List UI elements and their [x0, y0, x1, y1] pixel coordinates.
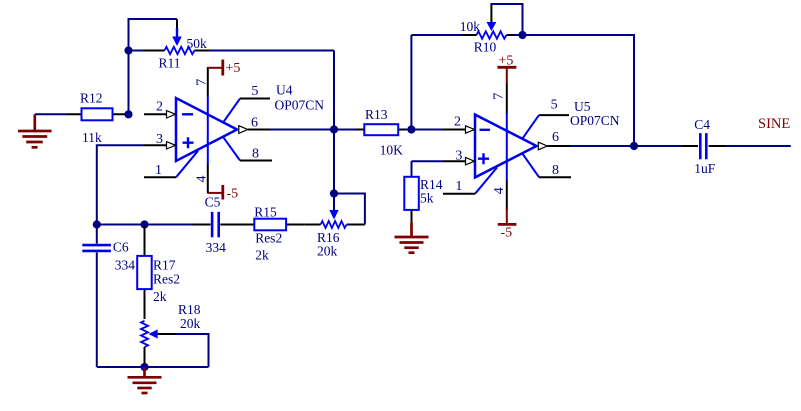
svg-text:10K: 10K [380, 143, 404, 158]
wire C4 to output [726, 145, 790, 147]
minus symbol [480, 129, 491, 131]
node junction J4 (R16 top) [330, 189, 338, 197]
wire R11 to node x334 [209, 50, 334, 52]
svg-text:C5: C5 [205, 195, 221, 210]
power +5 (U5) [497, 54, 516, 84]
wiper arrow [333, 194, 335, 211]
wiper loop wire [129, 19, 178, 50]
svg-text:C4: C4 [694, 117, 710, 132]
svg-text:7: 7 [194, 79, 209, 86]
node junction J3 (output U4) [330, 125, 338, 133]
node junction (R17 top) [140, 220, 148, 228]
pin 4 [207, 164, 209, 193]
svg-text:2k: 2k [153, 289, 167, 304]
ground GND3 (R14) [395, 222, 429, 252]
svg-text:10k: 10k [460, 19, 481, 34]
svg-text:Res2: Res2 [255, 231, 282, 246]
resistor R12 11k [67, 91, 129, 146]
pin 5 stub [223, 99, 240, 123]
wire U4 output to J3 [270, 129, 334, 131]
capacitor C5 334 [193, 195, 227, 256]
ground GND2 (bottom) [128, 367, 162, 393]
wire vertical J1 to R11 [128, 51, 130, 115]
svg-text:R12: R12 [80, 91, 103, 106]
pin 7 [506, 113, 508, 181]
svg-text:6: 6 [552, 130, 559, 145]
wiper arrow [149, 329, 158, 338]
wire bottom horizontal main [97, 224, 193, 226]
resistor R15 Res2 2k [220, 204, 304, 262]
zigzag body [165, 47, 195, 54]
node junction (left vertical / bottom wire) [93, 220, 101, 228]
svg-text:-5: -5 [227, 187, 239, 202]
pin 4 [506, 181, 508, 210]
svg-text:R18: R18 [178, 302, 201, 317]
svg-text:C6: C6 [113, 240, 129, 255]
pin stub bottom [144, 347, 146, 367]
pin stubs [305, 224, 365, 226]
node junction J7 (U5 output) [630, 142, 638, 150]
svg-text:5: 5 [551, 98, 558, 113]
svg-text:4: 4 [492, 187, 507, 194]
power +5 (U4) [208, 60, 241, 77]
svg-text:-5: -5 [501, 226, 513, 241]
svg-text:6: 6 [251, 116, 258, 131]
zigzag body vertical [141, 321, 148, 347]
wiper arrow [176, 28, 178, 37]
power -5 (U5) [498, 208, 517, 240]
wire R10 right to output node [523, 35, 635, 146]
svg-text:8: 8 [252, 146, 259, 161]
svg-text:R11: R11 [159, 56, 181, 71]
svg-text:7: 7 [492, 93, 507, 100]
resistor R14 5k [404, 161, 443, 222]
resistor R13 10K [334, 107, 411, 158]
wiper arrow [490, 5, 492, 24]
svg-text:R15: R15 [254, 204, 277, 219]
svg-text:1: 1 [455, 179, 462, 194]
svg-text:2: 2 [454, 114, 461, 129]
pin 8 stub [522, 153, 539, 177]
svg-text:1uF: 1uF [694, 161, 716, 176]
pin 6 output arrow [538, 142, 547, 150]
svg-text:20k: 20k [317, 244, 338, 259]
pin 1 stub [475, 168, 497, 194]
svg-text:1: 1 [155, 163, 162, 178]
wire J5 up to R10 [410, 35, 412, 130]
triangle body [176, 98, 237, 161]
zigzag body [321, 221, 347, 228]
pin stubs [144, 50, 209, 52]
pin 7 [207, 97, 209, 165]
op-amp U4 OP07CN [144, 67, 324, 193]
svg-text:SINE: SINE [758, 116, 790, 132]
svg-text:OP07CN: OP07CN [275, 98, 325, 113]
svg-text:50k: 50k [187, 36, 208, 51]
svg-text:+5: +5 [499, 54, 514, 69]
svg-text:+5: +5 [226, 61, 241, 76]
svg-text:R13: R13 [365, 107, 388, 122]
wire U5 output to C4 [570, 145, 681, 147]
capacitor C4 1uF [681, 117, 726, 176]
pin 8 stub [223, 137, 240, 161]
power -5 (U4) [208, 185, 238, 202]
pin 6 output arrow [239, 126, 248, 134]
svg-text:3: 3 [455, 148, 462, 163]
potentiometer R11 50k [129, 19, 210, 71]
svg-text:3: 3 [156, 132, 163, 147]
zigzag body [477, 31, 507, 38]
svg-text:5: 5 [251, 84, 258, 99]
svg-text:U5: U5 [574, 99, 591, 114]
plus symbol [478, 153, 489, 164]
plus symbol [183, 137, 194, 148]
svg-text:11k: 11k [82, 130, 102, 145]
pin 5 stub [522, 115, 539, 139]
svg-text:4: 4 [194, 176, 209, 183]
svg-text:5k: 5k [420, 190, 434, 205]
capacitor C6 334 [82, 225, 135, 368]
potentiometer R16 20k [305, 194, 365, 259]
svg-text:8: 8 [552, 163, 559, 178]
resistor R17 Res2 2k [137, 226, 180, 319]
svg-text:R10: R10 [474, 40, 497, 55]
potentiometer R10 10k [411, 4, 522, 55]
pin 2 stub [144, 113, 167, 115]
pin 2 stub [443, 129, 466, 131]
wire vertical x334 feedback [333, 51, 335, 194]
svg-text:334: 334 [115, 258, 136, 273]
wiper loop wire [176, 334, 209, 367]
svg-text:2: 2 [156, 100, 163, 115]
triangle body [475, 115, 537, 178]
node junction J1 (R12 right) [124, 110, 132, 118]
node junction J5 (R13 right) [407, 125, 415, 133]
wiper loop wire [490, 4, 522, 35]
pin 1 stub [176, 151, 198, 178]
node junction J6 (R10 right) [518, 31, 526, 39]
wire U4 pin3 net [97, 145, 144, 224]
svg-text:OP07CN: OP07CN [570, 113, 620, 128]
node junction (bottom ground) [140, 363, 148, 371]
minus symbol [182, 113, 193, 115]
node junction J2 (R11 left) [124, 46, 132, 54]
svg-text:R17: R17 [153, 258, 176, 273]
svg-text:U4: U4 [276, 83, 293, 98]
ground GND1 (left) [18, 114, 52, 147]
svg-text:Res2: Res2 [153, 272, 180, 287]
wire J5 to U5 pin2 [411, 129, 443, 131]
pin 3 stub [144, 144, 167, 146]
wiper loop [334, 194, 365, 225]
svg-text:334: 334 [206, 240, 227, 255]
svg-text:2k: 2k [255, 248, 269, 263]
op-amp U5 OP07CN [443, 84, 620, 210]
potentiometer R18 20k [141, 302, 209, 367]
svg-text:20k: 20k [180, 316, 201, 331]
pin 3 stub [443, 160, 466, 162]
wire bottom return [97, 366, 209, 368]
wire gnd to R12 [35, 113, 67, 115]
